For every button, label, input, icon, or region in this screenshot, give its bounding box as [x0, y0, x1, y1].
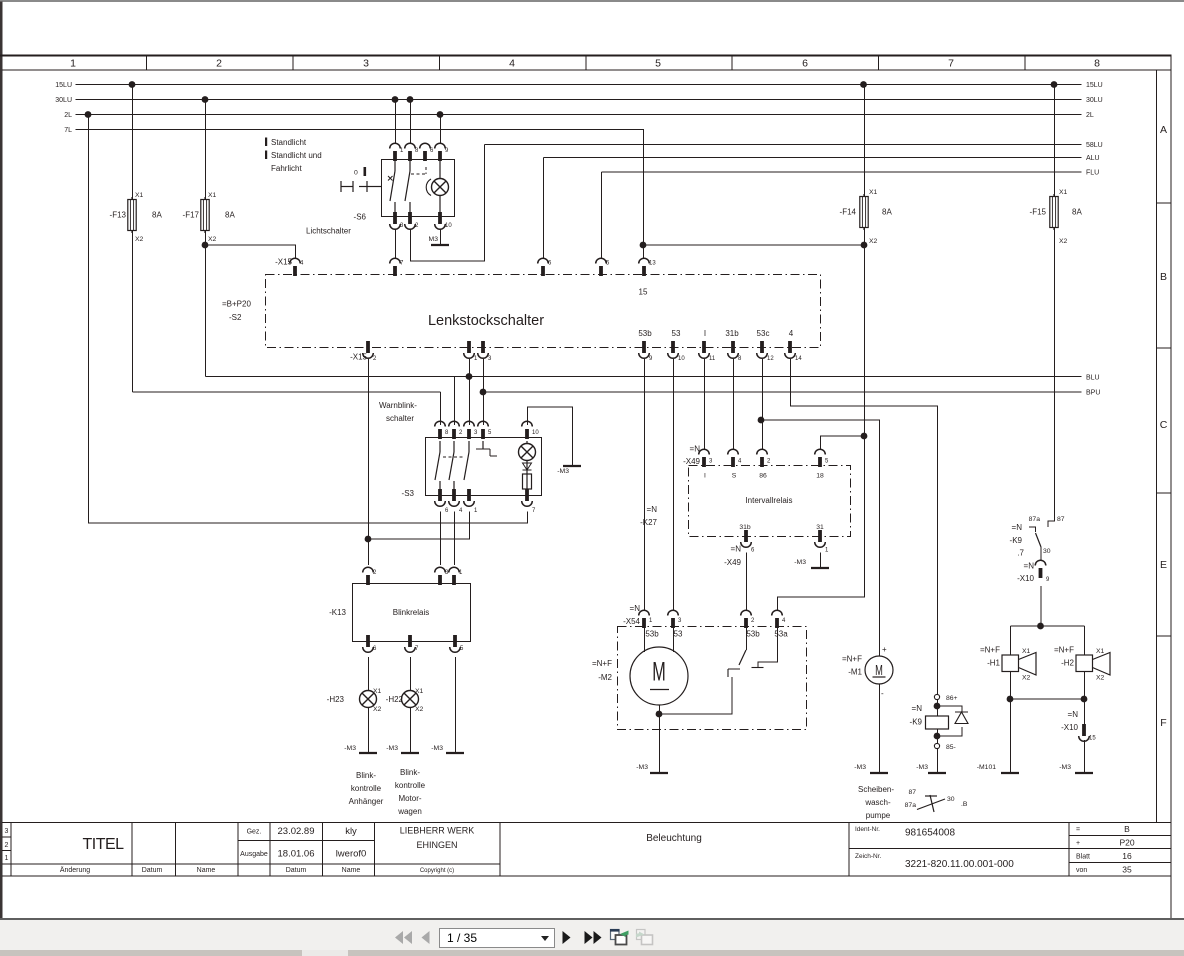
svg-text:3: 3 — [4, 828, 8, 835]
svg-text:X1: X1 — [1022, 648, 1031, 655]
svg-text:53c: 53c — [757, 329, 770, 338]
svg-text:X1: X1 — [415, 688, 424, 695]
svg-text:-: - — [881, 689, 884, 698]
svg-text:15LU: 15LU — [55, 82, 72, 89]
svg-text:-H2: -H2 — [1061, 659, 1074, 668]
svg-text:FLU: FLU — [1086, 170, 1099, 177]
svg-text:4: 4 — [509, 58, 515, 70]
svg-text:Anhänger: Anhänger — [349, 797, 384, 806]
svg-text:kontrolle: kontrolle — [395, 781, 426, 790]
svg-text:23.02.89: 23.02.89 — [278, 826, 315, 837]
svg-text:5: 5 — [825, 459, 829, 465]
svg-text:30: 30 — [947, 796, 955, 803]
svg-text:58LU: 58LU — [1086, 142, 1103, 149]
svg-text:-M3: -M3 — [636, 764, 648, 771]
svg-text:von: von — [1076, 867, 1087, 874]
svg-text:4: 4 — [789, 329, 794, 338]
svg-text:I: I — [704, 473, 706, 480]
svg-text:Zeich-Nr.: Zeich-Nr. — [855, 853, 882, 860]
svg-text:53a: 53a — [774, 630, 788, 639]
svg-text:Fahrlicht: Fahrlicht — [271, 164, 302, 173]
svg-text:0: 0 — [354, 170, 358, 177]
svg-text:4: 4 — [459, 508, 463, 514]
svg-text:-M3: -M3 — [431, 745, 443, 752]
svg-text:2: 2 — [4, 842, 8, 849]
svg-text:87: 87 — [1057, 516, 1065, 523]
svg-text:15: 15 — [639, 288, 648, 297]
svg-text:11: 11 — [709, 356, 716, 362]
svg-text:Motor-: Motor- — [398, 794, 421, 803]
svg-text:2: 2 — [373, 356, 377, 362]
svg-text:86: 86 — [759, 473, 767, 480]
svg-text:=N: =N — [1024, 562, 1035, 571]
svg-text:M3: M3 — [429, 236, 439, 243]
svg-text:=N+F: =N+F — [842, 655, 862, 664]
svg-text:-X10: -X10 — [1017, 574, 1034, 583]
svg-text:-M3: -M3 — [557, 468, 569, 475]
svg-text:13: 13 — [649, 261, 656, 267]
svg-text:-M2: -M2 — [598, 673, 612, 682]
svg-text:Datum: Datum — [286, 867, 307, 874]
svg-text:=N+F: =N+F — [1054, 646, 1074, 655]
svg-text:8: 8 — [415, 148, 419, 154]
svg-text:5: 5 — [488, 430, 492, 436]
svg-text:-X15: -X15 — [350, 353, 367, 362]
svg-text:TITEL: TITEL — [82, 836, 124, 853]
svg-text:7: 7 — [948, 58, 954, 70]
svg-text:1: 1 — [649, 618, 653, 624]
svg-text:-S2: -S2 — [229, 313, 242, 322]
svg-text:6: 6 — [751, 548, 755, 554]
svg-text:lwerof0: lwerof0 — [336, 849, 367, 860]
svg-text:87: 87 — [908, 789, 916, 796]
svg-text:S: S — [732, 473, 737, 480]
svg-text:=N: =N — [1012, 523, 1023, 532]
svg-text:2: 2 — [751, 618, 755, 624]
svg-text:LIEBHERR WERK: LIEBHERR WERK — [400, 826, 475, 836]
svg-text:6: 6 — [802, 58, 808, 70]
svg-text:X2: X2 — [1096, 675, 1105, 682]
svg-text:3: 3 — [400, 223, 404, 229]
svg-text:-X49: -X49 — [724, 558, 741, 567]
svg-text:12: 12 — [767, 356, 774, 362]
svg-text:Lichtschalter: Lichtschalter — [306, 227, 351, 236]
svg-text:8A: 8A — [1072, 208, 1082, 217]
svg-text:B: B — [1124, 824, 1130, 834]
svg-text:-X15: -X15 — [275, 258, 292, 267]
svg-text:Änderung: Änderung — [60, 866, 90, 874]
svg-text:18: 18 — [816, 473, 824, 480]
svg-text:ALU: ALU — [1086, 155, 1100, 162]
svg-text:5: 5 — [606, 261, 610, 267]
svg-text:M: M — [875, 662, 883, 679]
svg-text:-H22: -H22 — [386, 695, 404, 704]
svg-text:2: 2 — [415, 223, 419, 229]
svg-text:A: A — [1160, 124, 1167, 136]
svg-text:X2: X2 — [135, 236, 144, 243]
svg-text:31: 31 — [816, 524, 824, 531]
svg-text:35: 35 — [1122, 865, 1132, 875]
svg-text:Blinkrelais: Blinkrelais — [393, 608, 429, 617]
svg-text:30LU: 30LU — [55, 97, 72, 104]
svg-text:8A: 8A — [152, 211, 162, 220]
svg-text:2L: 2L — [64, 112, 72, 119]
svg-text:1: 1 — [474, 356, 478, 362]
svg-text:P20: P20 — [1119, 838, 1134, 848]
svg-text:Blatt: Blatt — [1076, 854, 1090, 861]
svg-text:2: 2 — [767, 459, 771, 465]
svg-text:3: 3 — [363, 58, 369, 70]
svg-text:31b: 31b — [725, 329, 739, 338]
svg-text:=B+P20: =B+P20 — [222, 300, 251, 309]
svg-text:=N+F: =N+F — [980, 646, 1000, 655]
svg-text:X1: X1 — [208, 192, 217, 199]
svg-text:4: 4 — [782, 618, 786, 624]
svg-text:87a: 87a — [1029, 516, 1041, 523]
svg-text:X2: X2 — [208, 236, 217, 243]
svg-text:8: 8 — [1094, 58, 1100, 70]
svg-text:Ident-Nr.: Ident-Nr. — [855, 826, 880, 833]
svg-text:-S6: -S6 — [354, 213, 367, 222]
svg-text:=N: =N — [630, 604, 641, 613]
svg-text:8A: 8A — [225, 211, 235, 220]
svg-text:-H1: -H1 — [987, 659, 1000, 668]
svg-text:wasch-: wasch- — [864, 798, 891, 807]
svg-text:-X54: -X54 — [623, 617, 640, 626]
svg-text:F: F — [1160, 717, 1166, 729]
svg-text:53b: 53b — [638, 329, 652, 338]
svg-text:8: 8 — [445, 430, 449, 436]
svg-text:-S3: -S3 — [402, 489, 415, 498]
svg-text:X2: X2 — [1022, 675, 1031, 682]
svg-text:Scheiben-: Scheiben- — [858, 785, 894, 794]
svg-text:-M3: -M3 — [386, 745, 398, 752]
svg-text:E: E — [1160, 559, 1167, 571]
svg-text:15LU: 15LU — [1086, 82, 1103, 89]
svg-text:4: 4 — [300, 261, 304, 267]
svg-text:Blink-: Blink- — [356, 771, 376, 780]
svg-text:C: C — [1160, 419, 1168, 431]
svg-text:.B: .B — [961, 801, 968, 808]
svg-text:53: 53 — [674, 630, 683, 639]
svg-text:-X10: -X10 — [1061, 723, 1078, 732]
svg-text:30LU: 30LU — [1086, 97, 1103, 104]
svg-text:-K9: -K9 — [910, 718, 923, 727]
svg-text:-F13: -F13 — [110, 211, 127, 220]
svg-text:86+: 86+ — [946, 695, 958, 702]
svg-text:18.01.06: 18.01.06 — [278, 849, 315, 860]
svg-text:6: 6 — [373, 646, 377, 652]
svg-text:B: B — [1160, 271, 1167, 283]
svg-text:=N: =N — [1068, 710, 1079, 719]
svg-text:85-: 85- — [946, 744, 956, 751]
svg-text:6: 6 — [445, 508, 449, 514]
svg-text:-M3: -M3 — [854, 764, 866, 771]
svg-text:X1: X1 — [869, 189, 878, 196]
svg-text:BPU: BPU — [1086, 390, 1100, 397]
svg-text:BLU: BLU — [1086, 375, 1100, 382]
svg-text:6: 6 — [548, 261, 552, 267]
svg-text:2: 2 — [216, 58, 222, 70]
svg-text:X1: X1 — [1096, 648, 1105, 655]
svg-text:+: + — [882, 645, 887, 654]
svg-text:1: 1 — [70, 58, 76, 70]
svg-text:3: 3 — [709, 459, 713, 465]
svg-text:7: 7 — [415, 646, 419, 652]
svg-text:.7: .7 — [1017, 549, 1024, 558]
svg-text:1: 1 — [825, 548, 829, 554]
svg-text:3: 3 — [678, 618, 682, 624]
svg-text:7L: 7L — [64, 127, 72, 134]
svg-text:1: 1 — [459, 570, 463, 576]
svg-text:3: 3 — [474, 430, 478, 436]
svg-text:9: 9 — [1046, 577, 1050, 583]
svg-text:-F14: -F14 — [840, 208, 857, 217]
svg-text:-H23: -H23 — [327, 695, 345, 704]
svg-text:-F15: -F15 — [1030, 208, 1047, 217]
svg-text:3221-820.11.00.001-000: 3221-820.11.00.001-000 — [905, 859, 1014, 870]
svg-text:I: I — [704, 329, 706, 338]
svg-text:Lenkstockschalter: Lenkstockschalter — [428, 313, 544, 329]
svg-text:-M3: -M3 — [916, 764, 928, 771]
svg-text:Datum: Datum — [142, 867, 163, 874]
svg-text:Standlicht: Standlicht — [271, 138, 307, 147]
svg-text:M: M — [652, 656, 665, 686]
svg-text:Blink-: Blink- — [400, 768, 420, 777]
svg-text:Name: Name — [342, 867, 361, 874]
svg-text:pumpe: pumpe — [866, 811, 891, 820]
svg-text:8A: 8A — [882, 208, 892, 217]
svg-text:Ausgabe: Ausgabe — [240, 851, 268, 858]
svg-text:+: + — [1076, 840, 1080, 847]
svg-text:Intervallrelais: Intervallrelais — [745, 496, 792, 505]
svg-text:2L: 2L — [1086, 112, 1094, 119]
svg-text:10: 10 — [445, 223, 452, 229]
svg-text:X2: X2 — [869, 238, 878, 245]
svg-text:7: 7 — [400, 261, 404, 267]
svg-text:X2: X2 — [373, 706, 382, 713]
svg-text:5: 5 — [655, 58, 661, 70]
svg-text:EHINGEN: EHINGEN — [416, 840, 457, 850]
svg-text:=: = — [1076, 827, 1080, 834]
svg-text:Beleuchtung: Beleuchtung — [646, 833, 702, 844]
svg-text:31b: 31b — [739, 524, 751, 531]
svg-text:981654008: 981654008 — [905, 828, 955, 839]
svg-text:3: 3 — [488, 356, 492, 362]
svg-text:9: 9 — [649, 356, 653, 362]
svg-text:-M101: -M101 — [977, 764, 996, 771]
svg-text:-M1: -M1 — [848, 668, 862, 677]
svg-text:-K13: -K13 — [329, 608, 346, 617]
svg-text:2: 2 — [373, 570, 377, 576]
svg-text:-F17: -F17 — [183, 211, 200, 220]
svg-text:4: 4 — [738, 459, 742, 465]
svg-text:schalter: schalter — [386, 414, 414, 423]
svg-text:1: 1 — [400, 148, 404, 154]
svg-text:-M3: -M3 — [344, 745, 356, 752]
svg-text:X1: X1 — [373, 688, 382, 695]
svg-text:Standlicht und: Standlicht und — [271, 151, 322, 160]
svg-text:1: 1 — [4, 855, 8, 862]
svg-text:X2: X2 — [1059, 238, 1068, 245]
svg-text:87a: 87a — [905, 802, 917, 809]
svg-text:-M3: -M3 — [1059, 764, 1071, 771]
svg-text:5: 5 — [460, 646, 464, 652]
svg-text:Warnblink-: Warnblink- — [379, 401, 417, 410]
svg-text:=N: =N — [647, 505, 658, 514]
svg-text:kontrolle: kontrolle — [351, 784, 382, 793]
svg-text:2: 2 — [459, 430, 463, 436]
svg-text:7: 7 — [532, 508, 536, 514]
svg-text:16: 16 — [1122, 851, 1132, 861]
svg-text:8: 8 — [738, 356, 742, 362]
svg-text:X2: X2 — [415, 706, 424, 713]
svg-text:9: 9 — [445, 148, 449, 154]
svg-text:=N: =N — [690, 445, 701, 454]
svg-text:=N: =N — [912, 704, 923, 713]
svg-text:Gez.: Gez. — [247, 829, 262, 836]
svg-text:1: 1 — [474, 508, 478, 514]
svg-text:10: 10 — [532, 430, 539, 436]
svg-text:14: 14 — [795, 356, 802, 362]
svg-text:Name: Name — [197, 867, 216, 874]
svg-text:wagen: wagen — [397, 807, 422, 816]
svg-text:-K27: -K27 — [640, 518, 657, 527]
svg-text:10: 10 — [678, 356, 685, 362]
svg-text:-X49: -X49 — [683, 457, 700, 466]
svg-text:30: 30 — [1043, 548, 1051, 555]
svg-text:=N+F: =N+F — [592, 659, 612, 668]
svg-text:15: 15 — [1089, 736, 1096, 742]
svg-text:=N: =N — [731, 545, 742, 554]
svg-text:-M3: -M3 — [794, 559, 806, 566]
svg-text:-K9: -K9 — [1010, 536, 1023, 545]
svg-text:X1: X1 — [135, 192, 144, 199]
svg-text:X1: X1 — [1059, 189, 1068, 196]
svg-text:Copyright (c): Copyright (c) — [420, 868, 454, 874]
svg-text:53b: 53b — [645, 630, 659, 639]
svg-text:6: 6 — [430, 148, 434, 154]
svg-text:53b: 53b — [746, 630, 760, 639]
svg-text:kly: kly — [345, 826, 357, 837]
svg-text:53: 53 — [672, 329, 681, 338]
